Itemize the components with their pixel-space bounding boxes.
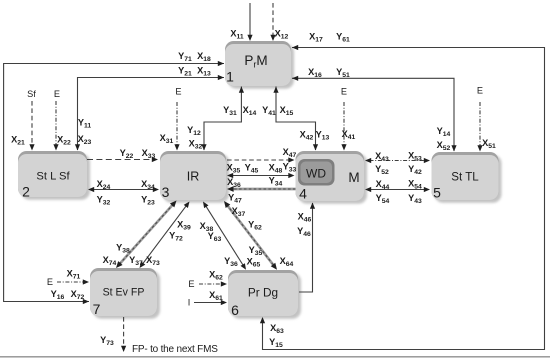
wire X37-Y62-Y35-X64 thick dashed [224,201,277,270]
label X31 [160,133,174,145]
svg-text:E: E [175,87,181,97]
svg-text:X51: X51 [482,138,496,150]
svg-text:WD: WD [306,167,326,181]
label Y72 [169,231,183,243]
svg-text:X73: X73 [146,255,160,267]
svg-text:St TL: St TL [451,171,479,184]
wire X35-Y45-X48-Y33 [227,173,295,178]
label Y21 [178,66,192,78]
svg-text:X33: X33 [142,148,156,160]
label E Pr Dg [188,279,194,289]
label FP to next FMS [132,344,218,355]
label Y63 [208,231,222,243]
svg-text:X54: X54 [408,179,422,191]
label X64 [280,256,294,268]
label X21 [11,135,25,147]
svg-text:E: E [54,89,60,99]
label Y73 [100,335,114,347]
svg-text:Y41: Y41 [262,105,276,117]
svg-text:X22: X22 [57,135,71,147]
label X62 [209,270,223,282]
label X71 [67,269,81,281]
svg-text:St Ev FP: St Ev FP [103,287,145,299]
svg-text:X53: X53 [408,150,422,162]
svg-text:Y22: Y22 [120,148,134,160]
svg-text:X36: X36 [227,177,241,189]
wire X16-Y51 to St TL [292,76,457,152]
wire X47 dashed [227,157,295,162]
label Y41 [262,105,276,117]
svg-text:X12: X12 [275,29,289,41]
wire Y21-X13 [75,75,224,151]
label Y47 [228,193,242,205]
svg-text:Y73: Y73 [100,335,114,347]
label Y36 [224,256,238,268]
label X61 [209,290,223,302]
svg-text:M: M [348,170,359,185]
svg-text:Y42: Y42 [408,164,422,176]
svg-text:Y43: Y43 [408,193,422,205]
label Y13 [316,130,330,142]
label Y14 [437,126,451,138]
wire X44-Y54-X54-Y43 [365,187,430,192]
svg-text:X21: X21 [11,135,25,147]
label Y16 [51,289,65,301]
label E St TL [477,86,483,96]
svg-text:2: 2 [22,184,30,200]
wire Y71-X18 left loop [4,61,224,304]
label Y71 [178,51,192,63]
svg-text:PrM: PrM [244,53,267,70]
svg-text:X71: X71 [67,269,81,281]
svg-text:Y16: Y16 [51,289,65,301]
svg-text:Y13: Y13 [316,130,330,142]
label X11 [230,29,244,41]
svg-text:Y31: Y31 [223,105,237,117]
svg-text:IR: IR [187,170,200,184]
label Y11 [78,118,92,130]
svg-text:Y21: Y21 [178,66,192,78]
bottom border line [0,356,550,358]
svg-text:X63: X63 [270,323,284,335]
label X16 [308,67,322,79]
svg-text:X72: X72 [71,289,85,301]
label Y42 [408,164,422,176]
svg-text:I: I [188,298,191,308]
wire X43-Y52-X53-Y42 dashdot [365,158,430,163]
label X37 [232,206,246,218]
svg-text:Sf: Sf [27,89,36,99]
block U6 Pr Dg [228,270,301,319]
label X24 [97,179,111,191]
label Y22 [120,148,134,160]
svg-text:X15: X15 [280,105,294,117]
label I [188,298,191,308]
wire Y31-X14-Y12-X32 [201,87,244,151]
wire E input Pr Dg [199,281,227,286]
svg-text:6: 6 [231,302,239,318]
svg-text:E: E [341,87,347,97]
svg-text:X32: X32 [189,139,203,151]
svg-text:Y36: Y36 [224,256,238,268]
label Y43 [408,193,422,205]
label Y54 [376,193,390,205]
block U3 IR [160,151,229,203]
svg-text:X42: X42 [300,130,314,142]
label E St Ev FP [47,277,53,287]
svg-text:X46: X46 [298,212,312,224]
label X22 [57,135,71,147]
svg-text:Y61: Y61 [336,31,350,43]
wire X39-Y72-Y37-X73 [140,202,190,269]
svg-text:Y71: Y71 [178,51,192,63]
label Y33 [283,162,297,174]
wire E input St Ev FP [57,279,89,284]
label E IR [175,87,181,97]
label X12 [275,29,289,41]
label X65 [247,257,261,269]
wire X12 input dashed [270,3,275,41]
label Y52 [375,164,389,176]
svg-text:X39: X39 [177,220,191,232]
label Y35 [249,245,263,257]
label Y34 [269,176,283,188]
label X46 [298,212,312,224]
label X39 [177,220,191,232]
label X74 [103,255,117,267]
svg-text:Y15: Y15 [269,337,283,349]
wire E input M [341,102,346,151]
svg-text:X31: X31 [160,133,174,145]
wire X17-Y61 right loop [260,45,545,350]
wire X46-Y46 [299,203,315,293]
wire X36-Y34 thick dashed [227,186,296,192]
wire Y38-X74 thick dashed [116,201,177,269]
svg-text:X14: X14 [243,105,257,117]
svg-text:X17: X17 [309,31,323,43]
label X36 [227,177,241,189]
svg-text:X62: X62 [209,270,223,282]
svg-text:Y38: Y38 [116,243,130,255]
svg-text:Y12: Y12 [187,125,201,137]
svg-text:X52: X52 [437,140,451,152]
label X48 [269,163,283,175]
wire X11 input [247,3,252,41]
label X42 [300,130,314,142]
svg-text:Y32: Y32 [97,195,111,207]
wire E input IR [174,102,179,151]
svg-text:Y11: Y11 [78,118,92,130]
label X15 [280,105,294,117]
label Y31 [223,105,237,117]
label X13 [197,66,211,78]
svg-text:FP- to the next FMS: FP- to the next FMS [132,344,218,355]
svg-text:Y46: Y46 [297,226,311,238]
svg-text:Y33: Y33 [283,162,297,174]
svg-text:Y23: Y23 [141,195,155,207]
label X54 [408,179,422,191]
label E block2 [54,89,60,99]
wire X24-Y32-X34-Y23 [88,187,159,192]
svg-text:X61: X61 [209,290,223,302]
label Sf [27,89,36,99]
svg-text:X48: X48 [269,163,283,175]
svg-text:X65: X65 [247,257,261,269]
svg-text:5: 5 [433,185,441,201]
label Y38 [116,243,130,255]
block U2 St L Sf [18,151,90,200]
label X44 [376,179,390,191]
svg-text:Y34: Y34 [269,176,283,188]
svg-text:X11: X11 [230,29,244,41]
svg-text:Y51: Y51 [336,67,350,79]
label Y12 [187,125,201,137]
label X34 [141,179,155,191]
svg-text:Y52: Y52 [375,164,389,176]
wire I input Pr Dg [194,300,227,305]
label Y23 [141,195,155,207]
label Y51 [336,67,350,79]
label X17 [309,31,323,43]
svg-text:Y45: Y45 [245,163,259,175]
label X53 [408,150,422,162]
svg-text:E: E [47,277,53,287]
label Y15 [269,337,283,349]
label X72 [71,289,85,301]
svg-text:Y54: Y54 [376,193,390,205]
svg-text:4: 4 [299,186,307,202]
block U5 St TL [432,152,502,203]
svg-text:Y14: Y14 [437,126,451,138]
svg-text:St L Sf: St L Sf [36,171,70,183]
block U7 St Ev FP [90,268,160,319]
label X38 [200,221,214,233]
svg-text:7: 7 [93,301,101,317]
svg-text:1: 1 [226,69,234,85]
svg-text:E: E [188,279,194,289]
svg-text:X74: X74 [103,255,117,267]
block U4 M with WD [296,151,368,204]
svg-text:Y37: Y37 [129,255,143,267]
label X32 [189,139,203,151]
svg-text:X64: X64 [280,256,294,268]
label X14 [243,105,257,117]
label X63 [270,323,284,335]
wire E input block2 [53,101,58,151]
svg-text:X43: X43 [375,151,389,163]
svg-text:X16: X16 [308,67,322,79]
wire Sf input block2 [29,101,34,151]
svg-text:E: E [477,86,483,96]
label Y32 [97,195,111,207]
wire Y41-X15-X42-Y13 [273,87,318,151]
label X33 [142,148,156,160]
label X35 [227,163,241,175]
label X18 [197,51,211,63]
svg-text:3: 3 [162,184,170,200]
label Y37 [129,255,143,267]
label X73 [146,255,160,267]
defs [0,0,1,1]
label X43 [375,151,389,163]
wire Y22-X33 dashed [87,157,158,162]
wire Y73 output dashed [121,317,126,352]
wire E input St TL [477,102,482,152]
svg-text:Y62: Y62 [248,220,262,232]
svg-text:Y72: Y72 [169,231,183,243]
svg-text:Pr Dg: Pr Dg [248,286,278,300]
svg-text:X13: X13 [197,66,211,78]
label X47 [283,147,297,159]
svg-text:X37: X37 [232,206,246,218]
label Y61 [336,31,350,43]
label Y46 [297,226,311,238]
label X52 [437,140,451,152]
svg-text:X18: X18 [197,51,211,63]
svg-text:Y63: Y63 [208,231,222,243]
label Y45 [245,163,259,175]
svg-text:Y47: Y47 [228,193,242,205]
svg-text:X47: X47 [283,147,297,159]
label X51 [482,138,496,150]
block U1 PrM [225,41,294,89]
label X41 [342,129,356,141]
label Y62 [248,220,262,232]
wire X38-Y63-Y36-X65 [203,202,246,270]
label X23 [78,134,92,146]
label E M [341,87,347,97]
